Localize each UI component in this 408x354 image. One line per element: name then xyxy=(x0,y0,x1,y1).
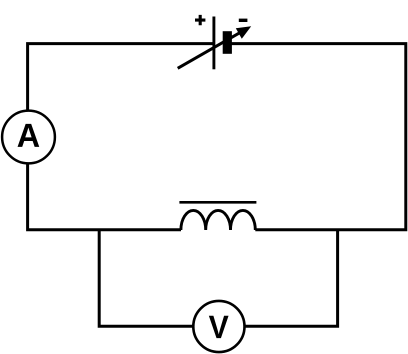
ammeter A1 label xyxy=(18,124,40,147)
wire left loop: top-left segment, left side, bottom-left segment xyxy=(28,44,214,230)
voltmeter V1 body xyxy=(193,301,244,352)
variable-source arrow shaft xyxy=(178,32,241,68)
inductor L1 core bar xyxy=(179,201,256,204)
battery B1 negative plate (short thick) xyxy=(223,31,232,54)
wire right loop: top-right segment, right side, bottom-right segment xyxy=(231,44,406,230)
wire voltmeter branch: left drop, bottom run, right rise xyxy=(99,230,337,327)
variable-source arrowhead xyxy=(236,26,251,39)
inductor L1 coil (3 loops) xyxy=(181,210,255,230)
voltmeter V1 label xyxy=(209,316,229,338)
battery B1 positive plate (long thin) xyxy=(212,17,215,70)
ammeter A1 body xyxy=(2,111,55,164)
plus polarity label xyxy=(195,15,205,25)
minus polarity label xyxy=(239,19,248,22)
